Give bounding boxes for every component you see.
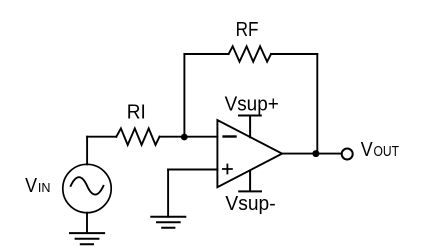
wire: RI to op-amp inverting input [160,136,218,138]
wire: feedback top right horizontal [271,53,317,55]
source VIN circle [63,164,111,212]
wire: feedback right vertical [316,54,318,154]
wire: feedback left vertical [183,54,185,137]
svg-text:V: V [25,175,37,197]
wire: source bottom vertical [86,213,88,233]
ground: source [70,233,104,244]
Vsup- pin [239,171,261,192]
op-amp plus input symbol [223,165,232,174]
wire: input horizontal to RI [87,136,116,138]
svg-text:IN: IN [38,180,51,195]
wire: feedback top left horizontal [184,53,228,55]
svg-text:RI: RI [127,102,146,124]
svg-text:V: V [361,139,373,161]
op-amp U1 triangle [217,120,282,187]
terminal: output open circle [342,149,353,160]
wire: non-inverting input horizontal [168,169,217,171]
op-amp minus input symbol [224,135,236,137]
wire: op-amp output [282,153,341,155]
node: junction dot at output [312,150,319,157]
node: junction dot at inverting input [181,134,188,141]
ground: op-amp plus input [151,217,185,228]
wire: non-inverting input vertical to ground [167,170,169,217]
svg-text:Vsup+: Vsup+ [225,93,279,115]
Vsup+ pin [239,116,261,138]
svg-text:Vsup-: Vsup- [225,193,275,215]
svg-text:RF: RF [236,19,259,41]
resistor RI [116,128,159,145]
wire: source top vertical [86,137,88,165]
svg-text:OUT: OUT [374,144,400,160]
resistor RF [229,46,271,61]
source VIN sine wave [71,177,104,194]
